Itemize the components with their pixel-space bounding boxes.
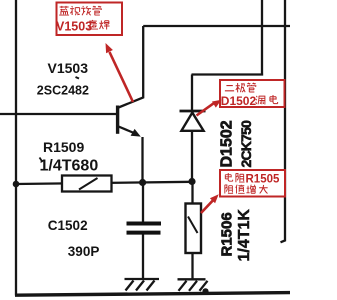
svg-text:R1506: R1506 bbox=[219, 212, 236, 256]
svg-text:C1502: C1502 bbox=[48, 218, 88, 233]
svg-text:390P: 390P bbox=[68, 244, 100, 259]
svg-text:2SC2482: 2SC2482 bbox=[37, 83, 89, 97]
svg-text:D1502: D1502 bbox=[221, 94, 257, 108]
svg-text:D1502: D1502 bbox=[219, 120, 236, 167]
svg-text:V1503: V1503 bbox=[56, 19, 92, 33]
svg-text:2CK750: 2CK750 bbox=[238, 120, 254, 168]
svg-text:1/4T1K: 1/4T1K bbox=[236, 209, 253, 262]
svg-text:R1509: R1509 bbox=[43, 139, 84, 155]
svg-text:V1503: V1503 bbox=[48, 60, 89, 76]
svg-text:1/4T680: 1/4T680 bbox=[40, 158, 99, 175]
svg-text:R1505: R1505 bbox=[246, 173, 280, 185]
